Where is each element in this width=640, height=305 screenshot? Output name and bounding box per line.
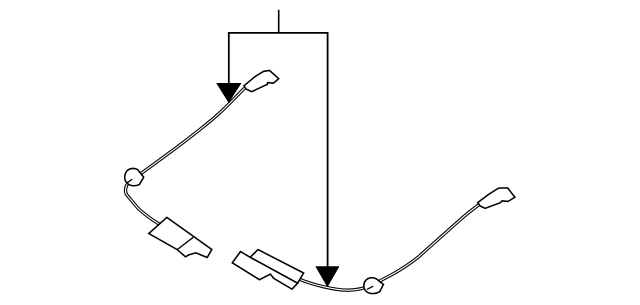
- grommet G1 (left cable clip): [125, 168, 144, 185]
- leader horizontal bar: [229, 32, 328, 34]
- arrowhead A2 (right): [315, 266, 339, 287]
- wire W1 lower segment (grommet to sensor head): [125, 184, 160, 224]
- sensor head S1 inner edge: [177, 237, 193, 249]
- leader right drop line: [327, 32, 329, 267]
- grommet G2 crease line: [367, 286, 373, 289]
- sensor head S1 (left, pad wear sensor tip): [149, 217, 212, 257]
- connector plug P2 (right): [478, 188, 515, 208]
- middle sensor front plate: [232, 252, 297, 290]
- grommet G2 (right cable clip): [364, 278, 384, 294]
- leader stem (top): [278, 10, 280, 33]
- middle sensor back plate: [250, 250, 304, 284]
- wire W2 (middle sensor through grommet to right connector): [298, 205, 479, 290]
- arrowhead A1 (left): [216, 83, 241, 103]
- wire W1 upper segment (connector to grommet): [141, 88, 245, 173]
- grommet G1 crease line: [126, 179, 132, 183]
- leader left drop line: [228, 32, 230, 84]
- connector plug P1 (left): [244, 71, 279, 92]
